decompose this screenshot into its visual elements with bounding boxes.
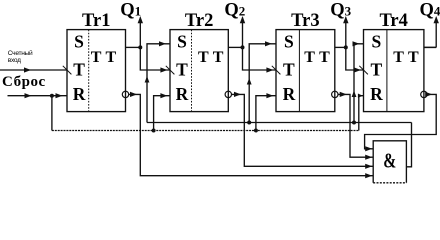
label Q4 xyxy=(420,1,440,21)
wire Q1 pin to junction xyxy=(126,46,141,48)
svg-text:T: T xyxy=(393,49,404,66)
node R bus junction R2 xyxy=(152,129,156,133)
wire Q3 up arrow xyxy=(343,16,348,47)
pin T label U4 xyxy=(371,59,383,79)
label Tr3 xyxy=(291,11,319,31)
inverted output bubble U3 xyxy=(332,91,338,97)
label Tr4 xyxy=(379,11,407,31)
inverted output bubble U2 xyxy=(225,91,231,97)
wire S feedback bus xyxy=(147,122,412,124)
wire Q2 pin to junction xyxy=(228,46,242,48)
pin T label U1 xyxy=(73,59,85,79)
svg-text:S: S xyxy=(372,32,382,52)
dynamic input slash T3 xyxy=(272,66,281,75)
label T T inside U4 xyxy=(393,49,419,66)
svg-text:T: T xyxy=(319,49,330,66)
svg-text:S: S xyxy=(177,32,187,52)
svg-text:T: T xyxy=(304,49,315,66)
node Q3 junction xyxy=(344,45,348,49)
label Tr1 xyxy=(82,11,110,31)
pin R label U2 xyxy=(176,84,189,104)
svg-text:R: R xyxy=(283,84,296,104)
svg-text:T: T xyxy=(91,49,102,66)
wire Сброс to R1 xyxy=(8,93,68,98)
svg-text:Счетный: Счетный xyxy=(8,49,33,57)
label T T inside U1 xyxy=(91,49,117,66)
pin S label U3 xyxy=(284,32,294,52)
wire Q4 up arrow xyxy=(434,16,439,47)
svg-text:T: T xyxy=(408,49,419,66)
wire S bus to S4 xyxy=(352,41,364,122)
wire count input to T1 xyxy=(0,67,67,72)
wire inverted Q2 to AND input xyxy=(232,92,374,169)
pin R label U4 xyxy=(370,84,383,104)
svg-text:R: R xyxy=(176,84,189,104)
svg-text:Q3: Q3 xyxy=(330,1,351,21)
dynamic input slash T2 xyxy=(166,66,175,75)
svg-text:Tr4: Tr4 xyxy=(379,11,407,31)
svg-text:Tr2: Tr2 xyxy=(185,11,213,31)
wire R bus to R2 xyxy=(154,93,170,130)
wire Q1 up arrow xyxy=(138,16,143,47)
pin S label U4 xyxy=(372,32,382,52)
svg-text:R: R xyxy=(73,84,86,104)
svg-text:Сброс: Сброс xyxy=(2,74,46,90)
svg-text:T: T xyxy=(371,59,383,79)
node R bus junction R3 xyxy=(254,129,258,133)
pin S label U1 xyxy=(74,32,84,52)
wire Q2 to T3 xyxy=(243,47,277,72)
svg-text:T: T xyxy=(283,59,295,79)
wire inverted Q1 to AND input xyxy=(129,92,374,179)
wire Q4 corner xyxy=(424,46,436,48)
svg-text:Tr3: Tr3 xyxy=(291,11,319,31)
pin R label U1 xyxy=(73,84,86,104)
svg-text:Q4: Q4 xyxy=(420,1,440,21)
flip-flop U4 box Tr4 xyxy=(364,30,424,112)
wire inverted Q3 to AND input xyxy=(338,92,373,160)
svg-text:вход: вход xyxy=(8,57,21,64)
flip-flop U1 box Tr1 xyxy=(67,30,126,112)
pin S label U2 xyxy=(177,32,187,52)
svg-text:Q2: Q2 xyxy=(224,1,245,21)
pin R label U3 xyxy=(283,84,296,104)
wire Q4 pin to junction xyxy=(424,46,436,48)
inverted output bubble U4 xyxy=(421,91,427,97)
wire S bus to S3 xyxy=(247,41,276,122)
wire Q2 up arrow xyxy=(240,16,245,47)
wire R bus to R4 xyxy=(358,94,364,131)
label Q1 xyxy=(120,1,141,21)
node S bus junction S3 xyxy=(247,121,251,125)
svg-text:S: S xyxy=(284,32,294,52)
dynamic input slash T4 xyxy=(359,66,368,75)
flip-flop U3 box Tr3 xyxy=(276,30,335,112)
label Q2 xyxy=(224,1,245,21)
label Сброс (reset) xyxy=(2,74,46,90)
svg-text:Q1: Q1 xyxy=(120,1,141,21)
AND gate DD1 box xyxy=(373,141,406,183)
wire AND output feedback to S bus xyxy=(406,123,411,167)
svg-text:T: T xyxy=(176,59,188,79)
wire Q1 to T2 xyxy=(140,47,170,72)
label & of AND gate xyxy=(383,148,396,172)
wire inverted Q4 to AND input 1 xyxy=(365,92,437,152)
label T T inside U3 xyxy=(304,49,330,66)
wire S bus to S2 xyxy=(145,41,170,122)
svg-text:T: T xyxy=(198,49,209,66)
wire R bus to R3 xyxy=(256,93,276,130)
svg-text:T: T xyxy=(213,49,224,66)
wire Q3 to T4 xyxy=(346,47,364,72)
node Q1 junction xyxy=(138,45,142,49)
svg-text:&: & xyxy=(383,148,396,172)
wire reset drop to R bus xyxy=(51,96,53,131)
pin T label U3 xyxy=(283,59,295,79)
wire R reset bus xyxy=(52,130,359,132)
svg-text:T: T xyxy=(73,59,85,79)
svg-text:R: R xyxy=(370,84,383,104)
node Q2 junction xyxy=(241,45,245,49)
dynamic input slash T1 xyxy=(63,66,72,75)
label Q3 xyxy=(330,1,351,21)
junction reset drop xyxy=(50,94,54,98)
label T T inside U2 xyxy=(198,49,224,66)
node S bus junction S4 xyxy=(352,121,356,125)
label Tr2 xyxy=(185,11,213,31)
label Счетный вход (count input) xyxy=(8,49,33,64)
pin T label U2 xyxy=(176,59,188,79)
svg-text:S: S xyxy=(74,32,84,52)
inverted output bubble U1 xyxy=(122,91,128,97)
wire Q3 pin to junction xyxy=(335,46,346,48)
flip-flop U2 box Tr2 xyxy=(170,30,228,112)
svg-text:T: T xyxy=(106,49,117,66)
svg-text:Tr1: Tr1 xyxy=(82,11,110,31)
